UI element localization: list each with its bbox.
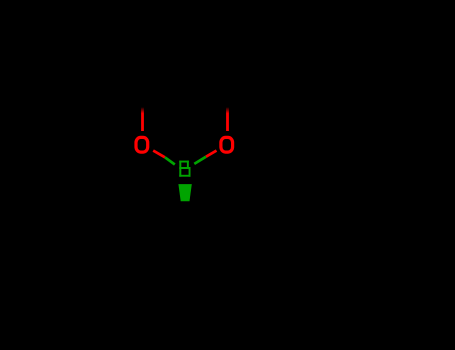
wire: C-O bond red half above left O bbox=[141, 108, 144, 132]
node B: boron atom label bbox=[179, 161, 190, 177]
wire: O-B bond left, red half near O bbox=[153, 151, 165, 158]
wire: O-B bond right, green half near B bbox=[194, 157, 206, 164]
wire: O-B bond right, red half near O bbox=[206, 151, 217, 157]
wire: B-C stereo bold wedge, green half near B bbox=[178, 184, 191, 201]
wire: C-O bond red half above right O bbox=[226, 108, 229, 132]
node O left: oxygen atom label bbox=[136, 137, 148, 152]
node O right: oxygen atom label bbox=[221, 137, 233, 152]
wire: O-B bond left, green half near B bbox=[165, 157, 175, 164]
